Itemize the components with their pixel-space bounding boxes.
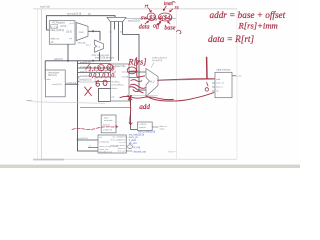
svg-text:write_en: write_en [51,37,60,40]
red swirl right of base [176,30,181,34]
memory Data Memory block [212,69,232,98]
svg-text:symbol: symbol [139,127,146,129]
svg-text:instr[15:0]: instr[15:0] [78,137,88,140]
svg-text:Memory: Memory [48,74,57,77]
svg-text:aluOp[2:0]: aluOp[2:0] [152,60,162,62]
alu U1 [146,57,167,97]
svg-text:state_out: state_out [99,148,108,151]
svg-text:valueB: valueB [122,76,129,78]
red arrow imm to 4 [163,6,166,11]
wire alu bottom stub [131,94,158,96]
sheet left margin line [37,10,39,160]
wire mux-eq to pc bus [99,52,101,61]
red arrow off to 4 [158,21,161,24]
red circle binary 2 [107,64,113,70]
svg-text:rs: rs [175,5,179,11]
red scribbles between regfile and alu [131,80,142,82]
svg-text:addr: addr [216,78,221,81]
svg-text:PC Register: PC Register [52,21,65,24]
svg-text:rt: rt [145,3,149,9]
wire offset row dark [80,106,131,108]
svg-text:pc+1: pc+1 [70,23,76,25]
node junction pc bus [67,60,69,62]
svg-text:in[15:0]: in[15:0] [102,124,110,126]
wire mux-top output right [126,18,177,20]
svg-text:data_in[15:0]: data_in[15:0] [51,29,65,32]
svg-text:destReg: destReg [111,80,120,83]
svg-text:state regs mems: state regs mems [110,144,125,147]
block control decoder bottom [98,135,126,153]
wire regfile valueB route [129,77,139,79]
wire PC block bottom to bus [67,44,69,61]
svg-text:x1 s1: x1 s1 [169,152,175,154]
svg-text:sext[15:0]: sext[15:0] [102,128,112,131]
mux pc-source (trapezoid right of PC) [70,23,89,45]
register file block [111,64,130,101]
svg-text:extender: extender [104,119,113,122]
red wire regfile to ALU top [72,57,215,129]
red vertical into addr wire [206,57,208,78]
wire instr mem output [65,83,77,85]
wire mid vertical to decoder [131,95,138,130]
svg-text:wr_out: wr_out [119,141,126,144]
sheet right border [236,9,238,159]
red digit 6 [96,80,100,86]
red wire alu output to mem addr [158,79,215,80]
wire instr vertical bus [78,61,99,151]
svg-text:decode_out: decode_out [133,150,146,153]
svg-text:data_in: data_in [216,86,224,89]
svg-text:mod il do: mod il do [40,6,50,9]
wire pc horizontal bus [45,60,110,62]
sheet top border [33,8,237,10]
svg-text:mem_addr[15:0]: mem_addr[15:0] [110,138,126,141]
svg-text:pc[15:0]: pc[15:0] [54,58,63,61]
svg-text:Mem is: Mem is [160,126,168,128]
bottom gray bar [0,165,300,168]
svg-text:data = R[rt]: data = R[rt] [208,34,254,44]
svg-text:instr[15:0]: instr[15:0] [67,81,77,84]
red circle around $3 [147,13,156,21]
wire offset row faint [33,102,105,104]
wire mux output to junction [88,30,100,32]
red scribble near destReg [103,80,107,85]
svg-text:[15:0]: [15:0] [61,26,67,28]
svg-text:data: data [139,25,150,31]
sheet left border [40,9,42,159]
red arrow data to $3 [145,21,149,24]
svg-text:pcsrc[15:0]: pcsrc[15:0] [128,20,140,23]
svg-text:data_out: data_out [233,75,242,78]
wire branch target down [122,34,146,90]
wire data_out stub [232,75,236,77]
svg-text:data memory: data memory [216,69,231,72]
red wire valueB curve to data_in [129,87,143,93]
svg-text:pc+1: pc+1 [86,45,92,47]
wire junction down to mux-eq [99,31,101,40]
blue net labels right of decoder [129,131,156,154]
svg-text:imm: imm [164,1,173,7]
svg-text:decoded_out: decoded_out [99,150,112,153]
svg-text:write_en: write_en [216,82,225,85]
svg-text:aluResult[15:0]: aluResult[15:0] [152,57,167,60]
red arrow base to $4 [168,21,170,24]
svg-text:addr = base + offset: addr = base + offset [210,10,286,20]
label tooltip box [79,76,95,82]
red wavy add line [141,97,173,100]
red arrow rt to $3 [149,8,152,12]
red circle valueA [127,67,136,74]
wire bus down to instr mem addr [45,61,49,79]
svg-text:R[rs]+imm: R[rs]+imm [238,21,278,31]
sign extender block [101,115,116,133]
red loop o near data_in [205,88,208,91]
svg-text:instr[15:0]: instr[15:0] [52,83,62,86]
mux branch-target (top horizontal) [107,17,126,60]
svg-text:base: base [164,25,175,31]
svg-text:instr[15:0] all wires: instr[15:0] all wires [95,56,115,59]
svg-text:dataIn: dataIn [111,87,118,90]
red tick near write_en [207,82,208,86]
sheet column divider [176,9,178,159]
wire into PC data_in [46,29,49,31]
svg-text:LC2K16: LC2K16 [139,124,148,126]
svg-text:st_reg: st_reg [133,146,140,149]
wire pc feedback top [46,16,115,30]
svg-text:tgt: tgt [70,37,73,40]
red circle binary [98,65,105,71]
svg-text:ALU: ALU [150,81,155,84]
red wavy through sign extender [72,125,118,129]
svg-text:0,0,1,0,1,0: 0,0,1,0,1,0 [89,73,115,79]
wire alu output [158,79,213,80]
sheet bottom border [41,158,237,160]
buffer ellipse blue row [128,145,133,149]
red descender to LC2K [129,98,132,124]
svg-text:pcmux[15:0]: pcmux[15:0] [67,12,81,16]
red tick before binary row [86,64,90,69]
svg-text:instr[24:22]: instr[24:22] [80,61,91,64]
svg-text:instr[15:0]: instr[15:0] [99,140,109,143]
svg-text:add: add [139,103,150,111]
red circle around 4($4) [158,13,171,21]
wire instr field rows to regfile [78,64,111,82]
wire regfile valueA to ALU [129,71,146,73]
svg-text:instr_out: instr_out [118,150,126,153]
wire regfile dataIn loop [99,89,111,102]
register PC block [49,21,75,45]
red arrow rs to $4 [170,9,173,12]
svg-text:pc reg: pc reg [51,25,58,28]
node junction pcmux [92,30,94,32]
svg-text:data out: data out [118,147,126,150]
svg-text:[15:0]: [15:0] [66,31,72,33]
svg-text:run_instr[15:0]: run_instr[15:0] [112,136,126,139]
red X mark [85,80,107,95]
svg-text:internalRegs: internalRegs [111,84,124,87]
svg-text:addr: addr [46,78,51,81]
block LC2K mem unit [138,122,168,131]
red junction blob under regfile [120,96,141,98]
memory Instruction Memory block [45,70,65,97]
svg-text:1,1,0,1,0,0: 1,1,0,1,0,0 [89,66,115,72]
svg-text:mux: mux [79,31,84,34]
wire decoder inputs [78,139,99,141]
svg-text:br: br [120,31,122,34]
mux eq-zero [86,40,110,57]
red tilde above imm [172,1,175,4]
svg-text:alu_out: alu_out [129,142,137,145]
